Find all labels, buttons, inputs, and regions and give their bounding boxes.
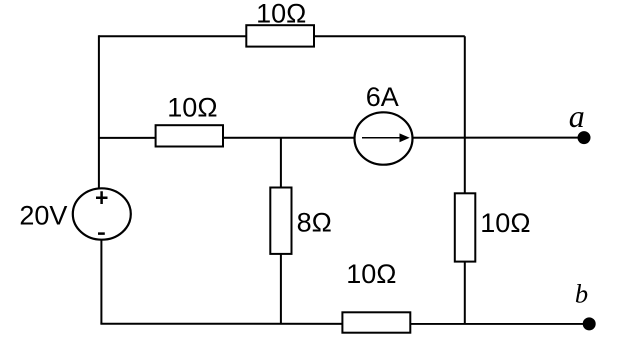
node b terminal dot xyxy=(583,317,596,330)
node a terminal dot xyxy=(578,131,591,144)
wire middle horizontal xyxy=(99,137,584,139)
svg-text:10Ω: 10Ω xyxy=(346,259,396,289)
wire top horizontal xyxy=(99,35,465,37)
svg-text:a: a xyxy=(569,98,585,134)
wire right vertical xyxy=(464,36,466,323)
wire left vertical lower xyxy=(100,238,102,324)
svg-text:b: b xyxy=(575,279,588,309)
svg-text:10Ω: 10Ω xyxy=(256,0,306,29)
resistor R1 10ohm top xyxy=(246,25,314,46)
wire left vertical upper xyxy=(98,35,100,190)
wire bottom horizontal xyxy=(100,323,589,325)
svg-text:20V: 20V xyxy=(19,201,67,231)
resistor R3 8ohm vertical xyxy=(270,188,291,254)
current source I1 6A circle xyxy=(355,112,413,164)
resistor R4 10ohm right vertical xyxy=(455,193,476,261)
svg-text:10Ω: 10Ω xyxy=(167,93,217,123)
I1 arrow xyxy=(362,137,401,139)
svg-text:6A: 6A xyxy=(366,82,399,112)
svg-text:8Ω: 8Ω xyxy=(297,207,332,237)
V1 plus sign xyxy=(96,191,108,204)
resistor R2 10ohm middle xyxy=(156,125,223,146)
voltage source V1 20V circle xyxy=(73,188,131,239)
resistor R5 10ohm bottom xyxy=(342,312,410,332)
V1 minus sign xyxy=(98,232,105,235)
svg-text:10Ω: 10Ω xyxy=(480,208,530,238)
wire 8-ohm branch vertical xyxy=(280,138,282,324)
